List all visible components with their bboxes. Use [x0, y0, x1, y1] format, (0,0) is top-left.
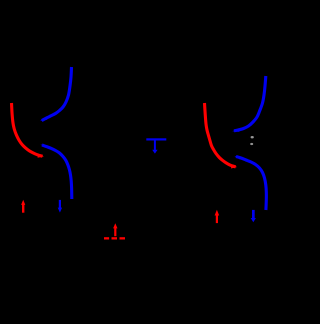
blue T level marker — [146, 138, 166, 140]
right red curve tip — [231, 164, 237, 168]
left red curve tip — [38, 153, 44, 157]
right blue upper tip — [232, 128, 239, 132]
right blue lower start tip — [234, 156, 240, 160]
right blue down arrow — [251, 210, 256, 222]
right panel: blue upper branch — [234, 76, 266, 131]
left panel: red diabatic curve — [12, 103, 43, 156]
right panel: blue lower branch — [236, 157, 266, 211]
blue T down arrow — [152, 141, 157, 154]
left panel: blue lower branch — [42, 145, 72, 199]
left red up arrow — [21, 200, 25, 213]
right red up arrow — [215, 210, 220, 223]
red dashed-level up arrow — [113, 223, 117, 236]
vertical ellipsis dots — [251, 136, 254, 138]
left panel: blue upper branch — [42, 67, 72, 121]
left blue upper tip — [40, 116, 47, 121]
red dashed level line — [104, 237, 125, 239]
left blue lower start tip — [40, 145, 46, 149]
left blue down arrow — [58, 200, 62, 213]
right panel: red diabatic curve — [205, 103, 236, 167]
